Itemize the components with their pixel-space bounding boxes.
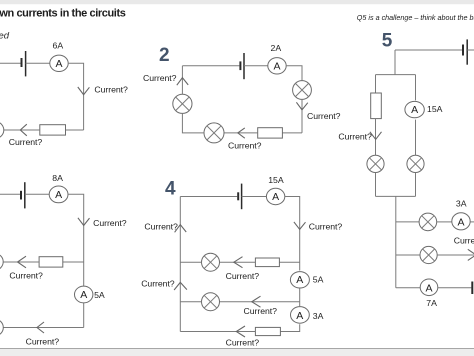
top wire to battery (395, 49, 462, 51)
battery B5 short plate (462, 45, 464, 56)
svg-text:A: A (425, 282, 432, 294)
wire battery to ammeter (25, 193, 50, 195)
branch1 right segment (279, 261, 299, 263)
svg-text:Current?: Current? (9, 271, 43, 281)
svg-text:6A: 6A (53, 41, 64, 51)
svg-text:A: A (457, 216, 464, 228)
arrow down right wire (78, 218, 90, 226)
lamp branch B (420, 246, 437, 263)
arrow up left wire (177, 78, 188, 86)
right branch wire to ammeter (415, 75, 417, 101)
bottom wire right segment (282, 132, 302, 134)
lamp branch A (419, 213, 437, 231)
battery B5 long plate (466, 39, 468, 64)
svg-text:7A: 7A (426, 298, 437, 308)
wire lamp down to corner (301, 99, 303, 132)
join horizontal (376, 195, 416, 197)
resistor R3 (39, 257, 63, 267)
svg-text:3A: 3A (456, 199, 467, 209)
battery B2 short plate (239, 61, 241, 70)
branch B wire lamp to edge with arrow (437, 254, 474, 256)
wire ammeter to corner, down to 5A (285, 197, 300, 271)
resistor R1 (40, 125, 66, 135)
svg-text:A: A (273, 60, 280, 72)
left branch wire to resistor (375, 75, 377, 93)
svg-text:A: A (272, 191, 279, 203)
arrow left bottom wire (37, 322, 44, 333)
ammeter A (3A) (452, 213, 470, 230)
battery B4 long plate (241, 184, 243, 210)
lamp left branch (367, 155, 384, 172)
wire battery to ammeter (26, 62, 50, 64)
svg-text:Q5 is a challenge – think abou: Q5 is a challenge – think about the bulb… (357, 13, 474, 22)
ammeter A (6A) (50, 55, 68, 71)
svg-text:2A: 2A (271, 43, 282, 53)
bottom wire right segment (66, 129, 84, 131)
right branch wire lamp to join (415, 173, 417, 197)
ammeter A (15A) (405, 101, 424, 117)
wire resistor to lamp (4, 129, 40, 131)
wire top left to battery (0, 62, 21, 64)
arrow down right wire (294, 222, 306, 230)
arrow left bottom wire (238, 128, 245, 138)
wire ammeter to corner and down (68, 63, 84, 130)
wire resistor to lamp (224, 132, 258, 134)
branch1 wire lamp to left wire (180, 261, 201, 263)
ammeter A (3A) right wire (291, 307, 310, 324)
wire battery to right edge (467, 49, 474, 51)
center vertical (395, 196, 397, 287)
left wire (179, 197, 181, 332)
left branch wire resistor to lamp (375, 119, 377, 156)
branch A wire (396, 221, 419, 223)
lamp left (173, 94, 192, 113)
ammeter A (5A) right wire (290, 272, 309, 288)
lamp middle (cut at edge) (0, 253, 3, 270)
svg-text:Current?: Current? (9, 137, 43, 147)
battery B2 long plate (243, 53, 245, 79)
svg-text:A: A (55, 189, 62, 201)
svg-text:Current?: Current? (338, 132, 372, 142)
resistor R2 (258, 128, 283, 138)
wire battery to ammeter (244, 65, 268, 67)
svg-text:A: A (296, 274, 303, 286)
svg-text:Current?: Current? (307, 111, 341, 121)
lamp L1 (cut at edge) (0, 122, 4, 139)
branch A wire to edge (470, 221, 474, 223)
arrow left middle branch (18, 256, 27, 268)
svg-text:2: 2 (159, 45, 170, 66)
top wire to battery (0, 193, 20, 195)
svg-text:own currents in the circuits: own currents in the circuits (0, 8, 126, 20)
top wire left segment (182, 65, 239, 67)
svg-text:Current?: Current? (143, 73, 177, 83)
svg-text:5: 5 (382, 31, 393, 52)
wire 3A to bottom corner (280, 324, 299, 331)
resistor R4b (255, 327, 280, 335)
svg-text:A: A (296, 310, 303, 322)
branch A wire lamp to ammeter (437, 221, 453, 223)
lamp right (293, 81, 312, 100)
svg-text:15A: 15A (427, 104, 443, 114)
lamp bottom (cut at edge) (0, 319, 3, 336)
ammeter A (2A) (268, 58, 286, 74)
svg-text:8A: 8A (52, 173, 63, 183)
wire ammeter to corner down right side (68, 194, 84, 327)
resistor R4a (255, 258, 279, 267)
svg-text:A: A (411, 104, 418, 116)
arrow down on right wire (78, 87, 90, 95)
svg-text:5A: 5A (313, 275, 324, 285)
svg-text:5A: 5A (94, 290, 105, 300)
svg-text:A: A (55, 58, 62, 70)
arrow left bottom wire (236, 326, 245, 337)
lamp right branch (407, 155, 424, 172)
svg-text:Current?: Current? (309, 221, 343, 231)
wire down from top (394, 50, 396, 75)
ammeter A (7A) (420, 279, 438, 296)
svg-text:3A: 3A (313, 311, 324, 321)
ammeter A (5A) on right wire (75, 286, 93, 303)
svg-text:Current?: Current? (454, 236, 474, 246)
branch C wire ammeter to battery (438, 287, 472, 289)
arrow up left wire (lower) (174, 282, 187, 290)
battery B4 short plate (237, 192, 239, 200)
arrow left branch1 (234, 257, 243, 268)
left branch wire lamp to join (375, 173, 377, 197)
right branch wire ammeter to lamp (415, 120, 417, 156)
svg-text:Current?: Current? (141, 278, 175, 288)
svg-text:Current?: Current? (226, 271, 260, 281)
wire between ammeters (299, 289, 301, 307)
svg-text:Current?: Current? (228, 141, 262, 151)
wire lamp to bottom left corner and up (182, 114, 204, 133)
battery B1 short plate (21, 58, 23, 67)
svg-text:Current?: Current? (93, 218, 127, 228)
battery B1 long plate (25, 51, 27, 76)
split horizontal (376, 74, 416, 76)
svg-text:15A: 15A (268, 175, 284, 185)
middle branch wire right segment (63, 261, 84, 263)
branch B wire (396, 254, 420, 256)
bottom wire (3, 327, 84, 329)
branch2 wire right segment (220, 301, 300, 303)
branch C wire (396, 287, 421, 289)
svg-text:ed: ed (0, 31, 10, 42)
bottom wire resistor to left corner (180, 331, 255, 333)
wire left lamp up to top (181, 66, 183, 94)
svg-text:A: A (80, 289, 87, 301)
svg-text:Current?: Current? (144, 222, 178, 232)
battery B3 short plate (20, 191, 22, 200)
resistor R5 (vertical) (371, 93, 382, 119)
svg-text:Current?: Current? (26, 337, 60, 347)
svg-text:4: 4 (165, 179, 176, 200)
branch1 wire resistor to lamp (220, 261, 256, 263)
arrow right branch B (468, 249, 474, 260)
ammeter A (15A) (266, 188, 284, 204)
lamp branch1 (202, 253, 220, 271)
lamp branch2 (202, 293, 220, 311)
top wire left segment (180, 196, 237, 198)
arrow up left wire (upper) (175, 225, 187, 233)
branch2 wire lamp to left wire (180, 301, 201, 303)
arrow left branch2 (252, 296, 261, 307)
ammeter A (8A) (49, 186, 68, 203)
svg-text:Current?: Current? (94, 85, 128, 95)
wire resistor to lamp (4, 261, 40, 263)
svg-text:Current?: Current? (226, 337, 260, 347)
svg-text:Current?: Current? (244, 306, 278, 316)
battery B5b short plate (471, 282, 473, 295)
battery B3 long plate (24, 182, 26, 208)
arrow down right wire (296, 102, 307, 110)
wire battery to ammeter (242, 196, 267, 198)
arrow down left branch (370, 132, 382, 140)
wire ammeter to top right corner (286, 66, 302, 81)
arrow left on bottom wire (20, 124, 27, 136)
lamp bottom (204, 123, 224, 143)
